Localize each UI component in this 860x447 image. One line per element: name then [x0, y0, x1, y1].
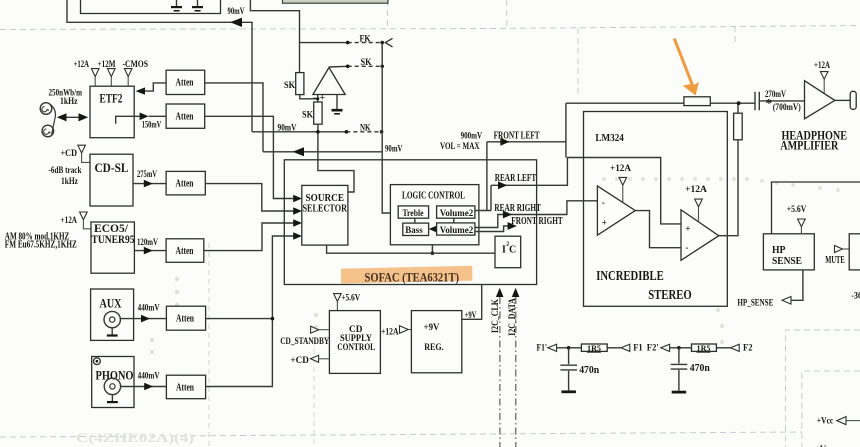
ground symbol F1: [561, 390, 576, 393]
junction dot SK a: [346, 65, 350, 69]
svg-text:Volume2: Volume2: [440, 208, 474, 218]
open arrow +Vcc: [837, 417, 860, 425]
junction dot NK b: [380, 130, 384, 134]
faint scan column line b: [313, 340, 315, 447]
double arrow tape to ETF2: [57, 113, 88, 121]
node SK row: [329, 65, 348, 68]
wire 90mV arrow row: [263, 151, 382, 153]
block Treble: [398, 206, 428, 219]
junction dot aux/phono: [271, 317, 275, 321]
supply antenna +12A above ECO5: [80, 212, 91, 229]
wire atten5 out to junction: [206, 318, 273, 320]
wire ECO5 out: [134, 250, 166, 252]
wire +9V from sofac to regulator: [462, 285, 482, 320]
svg-text:INCREDIBLE: INCREDIBLE: [596, 268, 664, 283]
svg-text:275mV: 275mV: [137, 169, 157, 179]
box U-top (cut off at top edge): [81, 0, 221, 14]
open arrow HP_SENSE: [782, 297, 791, 305]
svg-text:+Vcc: +Vcc: [817, 417, 834, 427]
svg-text:TUNER95: TUNER95: [92, 232, 135, 246]
svg-text:REAR LEFT: REAR LEFT: [495, 173, 537, 184]
page section dashed corner right outer: [786, 330, 860, 447]
arrowhead I2C_CLK up: [496, 288, 504, 297]
block AUX: [91, 289, 134, 340]
wire atten4 out to selector input3: [204, 223, 294, 251]
block mute attenuator (cut at right): [849, 234, 860, 270]
resistor SK upper: [296, 73, 304, 95]
capacitor-ground symbol a in top box: [171, 0, 182, 12]
capacitor 470n right: [671, 348, 688, 391]
svg-text:+9V: +9V: [465, 310, 477, 320]
arrowhead selector input3: [293, 219, 302, 226]
rca jack PHONO: [104, 378, 120, 403]
svg-text:I2C_CLK: I2C_CLK: [491, 298, 501, 333]
svg-text:1R5: 1R5: [587, 343, 601, 353]
svg-text:1R5: 1R5: [697, 343, 711, 353]
block INCREDIBLE STEREO outline: [584, 112, 728, 307]
wire rear left row: [491, 158, 681, 224]
wire resistor to F2 arrow: [716, 347, 730, 349]
supply antenna +12A hp: [820, 72, 828, 93]
wire rear left vertical: [490, 185, 492, 210]
page section dashed line horizontal top: [0, 26, 860, 30]
wire Volume2 lower to Bass: [435, 228, 437, 230]
wire NK row dashed: [346, 131, 381, 133]
svg-text:FRONT LEFT: FRONT LEFT: [494, 131, 540, 142]
svg-text:Atten: Atten: [176, 314, 194, 325]
block Bass: [403, 223, 429, 236]
junction dot F2 node: [677, 346, 681, 350]
op-amp headphone amplifier triangle: [805, 81, 835, 119]
svg-text:Atten: Atten: [176, 179, 194, 190]
svg-text:LOGIC CONTROL: LOGIC CONTROL: [402, 190, 465, 202]
arrowhead 275mV: [144, 180, 153, 188]
atten box row2 (150mV): [166, 104, 205, 128]
wire ETF2 playback out 150mV: [116, 116, 140, 123]
arrowhead selector input2: [293, 207, 302, 214]
svg-text:-CMOS: -CMOS: [123, 59, 149, 69]
block +9V REG: [411, 311, 461, 373]
wire hp amp output: [835, 99, 851, 101]
svg-text:90mV: 90mV: [228, 6, 245, 16]
block I2C interface: [495, 236, 521, 268]
supply antenna +5.6V cd supply: [334, 294, 342, 311]
svg-text:Atten: Atten: [176, 111, 194, 122]
block CD SUPPLY CONTROL: [329, 311, 380, 374]
svg-text:90mV: 90mV: [385, 144, 403, 154]
box headphone sense section (cut at right): [772, 182, 860, 234]
open arrow MUTE: [835, 246, 850, 253]
svg-text:SENSE: SENSE: [772, 256, 802, 267]
wire feedback resistor top: [737, 103, 739, 113]
svg-text:REAR RIGHT: REAR RIGHT: [494, 203, 541, 214]
faint scan column line a: [208, 243, 210, 447]
junction dot F1 node: [567, 346, 571, 350]
svg-text:F1: F1: [633, 344, 643, 354]
svg-text:+12A: +12A: [381, 326, 399, 336]
junction dot FK a: [346, 41, 350, 45]
svg-text:F2': F2': [647, 344, 659, 354]
svg-text:PHONO: PHONO: [96, 367, 134, 382]
capacitor-ground symbol b in top box: [192, 0, 203, 12]
svg-text:ETF2: ETF2: [100, 91, 123, 105]
page section dashed line vertical right: [734, 26, 736, 45]
svg-text:CONTROL: CONTROL: [337, 343, 375, 353]
wire resistor to NK row and selector: [318, 124, 354, 192]
svg-text:-6dB track: -6dB track: [49, 166, 83, 176]
ghost dot row in stereo box: [602, 177, 840, 192]
supply antenna +CD above CD-SL: [78, 145, 90, 162]
svg-text:-: -: [602, 198, 605, 208]
wire selector bottom bus to I2C block: [327, 245, 495, 253]
svg-text:90mV: 90mV: [278, 123, 297, 133]
svg-text:-30: -30: [851, 291, 860, 301]
block Volume2 upper: [437, 206, 475, 218]
svg-text:VOL = MAX: VOL = MAX: [440, 142, 480, 152]
open arrow +12A to regulator: [400, 326, 412, 334]
svg-text:Atten: Atten: [176, 246, 194, 257]
page section dashed line vertical mid: [577, 28, 579, 96]
op-amp triangle (monitor): [313, 68, 345, 95]
capacitor 470n left: [560, 348, 577, 391]
supply antenna +12A U1a: [619, 177, 627, 202]
arrowhead 120mV: [144, 247, 153, 255]
svg-text:CD-SL: CD-SL: [95, 161, 129, 175]
resistor feedback vertical: [734, 113, 743, 140]
svg-text:AMPLIFIER: AMPLIFIER: [780, 137, 838, 152]
wire atten3 out to selector input2: [205, 184, 293, 211]
wire 90mV feedback to top-left: [67, 0, 252, 132]
wire SK resistor bottom to op-amp minus node: [300, 95, 318, 99]
svg-text:SELECTOR: SELECTOR: [303, 203, 348, 214]
svg-text:470n: 470n: [690, 363, 710, 374]
box fragment top center (cut off): [283, 0, 389, 3]
wire front left row: [487, 141, 566, 143]
atten box row4 (tuner): [166, 239, 204, 262]
page section dashed corner right inner: [802, 371, 860, 447]
wire front left vertical: [486, 142, 488, 211]
block ETF2: [90, 86, 134, 138]
arrowhead I2C_DATA up: [512, 288, 520, 297]
arrowhead 440mV phono: [144, 383, 153, 391]
svg-text:+12A: +12A: [685, 184, 708, 194]
svg-text:+CD: +CD: [61, 148, 78, 158]
svg-text:1kHz: 1kHz: [61, 177, 79, 187]
svg-text:SK: SK: [284, 81, 296, 91]
open arrow FK end: [385, 38, 392, 47]
arrowhead left on top 90mV wire: [230, 18, 242, 27]
atten box row5 (aux): [166, 306, 205, 330]
phono corner terminal circle: [94, 358, 101, 365]
junction dot feedback node: [737, 101, 741, 105]
svg-text:(700mV): (700mV): [773, 102, 801, 112]
orange highlight band: [341, 266, 472, 284]
svg-text:Volume2: Volume2: [440, 225, 474, 235]
wire from top edge to FK column: [250, 0, 299, 73]
svg-text:+: +: [602, 217, 607, 227]
svg-text:+CD: +CD: [290, 356, 309, 366]
svg-text:CD_STANDBY: CD_STANDBY: [280, 336, 329, 347]
svg-text:Bass: Bass: [405, 226, 423, 236]
rca jack AUX: [104, 311, 120, 336]
svg-text:+5.6V: +5.6V: [787, 204, 807, 214]
dash-dot line I2C_DATA: [515, 297, 517, 447]
arrowhead 440mV aux: [141, 315, 150, 323]
svg-text:MUTE: MUTE: [825, 255, 845, 266]
svg-text:F2: F2: [743, 344, 753, 354]
wire arrow to atten2: [149, 115, 167, 117]
wire atten1 out to 90mV row: [205, 83, 263, 152]
block HP SENSE: [763, 234, 814, 270]
svg-text:-: -: [685, 242, 688, 252]
open arrow F1': [548, 344, 557, 351]
arrowhead left 90mV row: [293, 147, 304, 156]
svg-text:C(4ZHE02A)(4): C(4ZHE02A)(4): [76, 430, 194, 445]
supply antenna +5.6V hp sense: [798, 219, 806, 234]
orange annotation arrow: [674, 39, 699, 96]
capacitor coupling headphone: [755, 92, 759, 111]
tape reel icon: [40, 103, 55, 137]
junction dot minus node: [316, 97, 319, 100]
svg-text:120mV: 120mV: [137, 237, 158, 247]
wire resistor to F1 arrow: [607, 347, 621, 349]
arrowhead FRONT LEFT: [500, 138, 509, 146]
svg-text:1kHz: 1kHz: [60, 97, 78, 107]
svg-text:C: C: [509, 245, 516, 256]
svg-text:FRONT RIGHT: FRONT RIGHT: [511, 216, 563, 227]
svg-text:SK: SK: [302, 111, 314, 121]
wire junction up to selector input4: [272, 236, 293, 319]
open arrow +CD: [311, 355, 330, 362]
op-amp U1b triangle: [681, 210, 719, 260]
op-amp U1a triangle: [597, 186, 635, 235]
wire Volume2 lower out2 front right: [475, 226, 509, 232]
op-amp ground stem: [336, 95, 338, 109]
svg-text:SOURCE: SOURCE: [306, 193, 345, 204]
wire SK row dashed: [348, 65, 383, 67]
resistor 1R5 left: [581, 343, 607, 353]
wire FK row: [300, 42, 348, 44]
resistor SK lower: [314, 102, 322, 124]
svg-text:LM324: LM324: [595, 133, 624, 144]
arrowhead 150mV: [140, 113, 149, 121]
page section dashed line vertical top b: [506, 0, 508, 28]
block Volume2 lower: [437, 223, 475, 235]
wire U1b out to feedback column: [719, 140, 738, 236]
svg-text:I2C_DATA: I2C_DATA: [508, 298, 518, 336]
svg-text:NK: NK: [360, 123, 371, 133]
page section dashed line bottom: [0, 432, 802, 437]
supply antenna -CMOS above ETF2: [124, 69, 132, 87]
supply antenna +12A U1b: [695, 199, 703, 221]
svg-text:+5.6V: +5.6V: [341, 293, 360, 303]
svg-text:SOFAC (TEA6321T): SOFAC (TEA6321T): [365, 271, 460, 285]
svg-text:Atten: Atten: [176, 78, 194, 89]
arrowhead into ETF2: [136, 87, 145, 94]
open arrow F1: [621, 344, 630, 351]
wire NK row: [252, 131, 346, 133]
svg-text:+12A: +12A: [61, 215, 78, 225]
svg-text:AUX: AUX: [100, 296, 122, 311]
wire atten1 to ETF2 record input: [138, 83, 166, 91]
svg-text:SK: SK: [361, 58, 373, 68]
block SOURCE SELECTOR: [302, 185, 348, 245]
arrowhead REAR RIGHT: [503, 211, 512, 219]
wire AUX out: [120, 318, 166, 320]
wire logic control bottom: [431, 245, 433, 253]
arrowhead selector input4: [293, 232, 302, 239]
svg-text:900mV: 900mV: [461, 131, 483, 141]
block ECO5/TUNER95: [91, 221, 135, 273]
wire Volume2 lower out1 rear right: [475, 201, 598, 228]
open arrow F2': [661, 344, 670, 351]
page section dashed line vertical top a: [387, 0, 389, 28]
junction dot NK a: [345, 130, 349, 134]
atten box row1 (tape monitor): [166, 70, 205, 94]
svg-text:STEREO: STEREO: [648, 287, 692, 302]
wire Volume2 upper out: [475, 210, 491, 212]
wire FK row dashed: [348, 42, 383, 44]
svg-text:440mV: 440mV: [138, 371, 160, 381]
svg-text:+9V: +9V: [424, 323, 440, 333]
wire Treble to Bass: [414, 218, 416, 223]
arrowhead FRONT RIGHT: [508, 222, 517, 230]
op-amp minus input stub: [317, 95, 319, 103]
junction dot bus: [431, 251, 435, 255]
resistor 1R5 right: [692, 343, 717, 353]
junction dot SK b: [380, 65, 384, 69]
arrowhead into Bass: [429, 226, 436, 232]
block PHONO: [92, 357, 134, 408]
arrowhead selector input1: [293, 195, 302, 202]
svg-text:REG.: REG.: [424, 343, 444, 353]
wire headphone drive line: [566, 103, 755, 157]
svg-text:Atten: Atten: [176, 382, 194, 393]
svg-text:F1': F1': [537, 344, 548, 354]
svg-text:+12A: +12A: [74, 59, 90, 69]
svg-text:FK: FK: [360, 34, 371, 44]
svg-text:+12A: +12A: [814, 60, 830, 70]
wire hp sense out: [791, 270, 803, 300]
headphone jack symbol: [850, 91, 856, 109]
svg-text:+12M: +12M: [98, 59, 116, 69]
wire CD-SL out: [133, 183, 166, 185]
junction dot NK left: [316, 130, 320, 134]
wire U1a out to U1b minus: [635, 211, 681, 248]
svg-text:HP_SENSE: HP_SENSE: [737, 298, 773, 309]
wire atten2 out to selector input1: [205, 116, 294, 198]
svg-text:470n: 470n: [579, 365, 599, 376]
wire F2' to resistor: [670, 347, 692, 349]
svg-text:440mV: 440mV: [138, 303, 160, 313]
junction dot FK b: [380, 41, 384, 45]
wire F1' to resistor: [557, 347, 582, 349]
wire PHONO out: [121, 386, 167, 388]
wire vertical FK-NK-treble column: [382, 43, 399, 213]
IC box SOFAC TEA6321T outline: [284, 160, 536, 285]
open arrow CD_STANDBY: [311, 326, 330, 333]
block CD-SL: [90, 154, 133, 206]
svg-text:150mV: 150mV: [142, 119, 162, 129]
supply antenna +12M above ETF2: [108, 69, 116, 87]
svg-text:Treble: Treble: [403, 209, 424, 219]
wire junction down to atten6: [206, 319, 273, 387]
ground symbol op-amp: [332, 109, 343, 115]
svg-text:HP: HP: [772, 245, 786, 256]
open arrow F2: [730, 344, 739, 351]
svg-text:+: +: [685, 224, 690, 234]
block LOGIC CONTROL: [390, 185, 479, 245]
supply antenna +12A above ETF2: [91, 69, 99, 87]
wire capacitor to hp amp: [759, 100, 804, 102]
atten box row6 (phono): [166, 375, 205, 399]
resistor series horizontal: [684, 97, 710, 106]
ghost dot column left of sofac: [150, 277, 724, 354]
dash-dot line I2C_CLK: [499, 297, 501, 447]
arrowhead REAR LEFT: [498, 181, 507, 189]
svg-text:*: *: [766, 95, 773, 110]
svg-text:FM Eu67.5KHZ,1KHZ: FM Eu67.5KHZ,1KHZ: [5, 239, 77, 250]
svg-text:+12A: +12A: [610, 163, 631, 173]
atten box row3 (cd): [166, 171, 205, 195]
ground symbol F2: [672, 391, 687, 394]
wire Volume2 to Volume2: [453, 218, 455, 223]
